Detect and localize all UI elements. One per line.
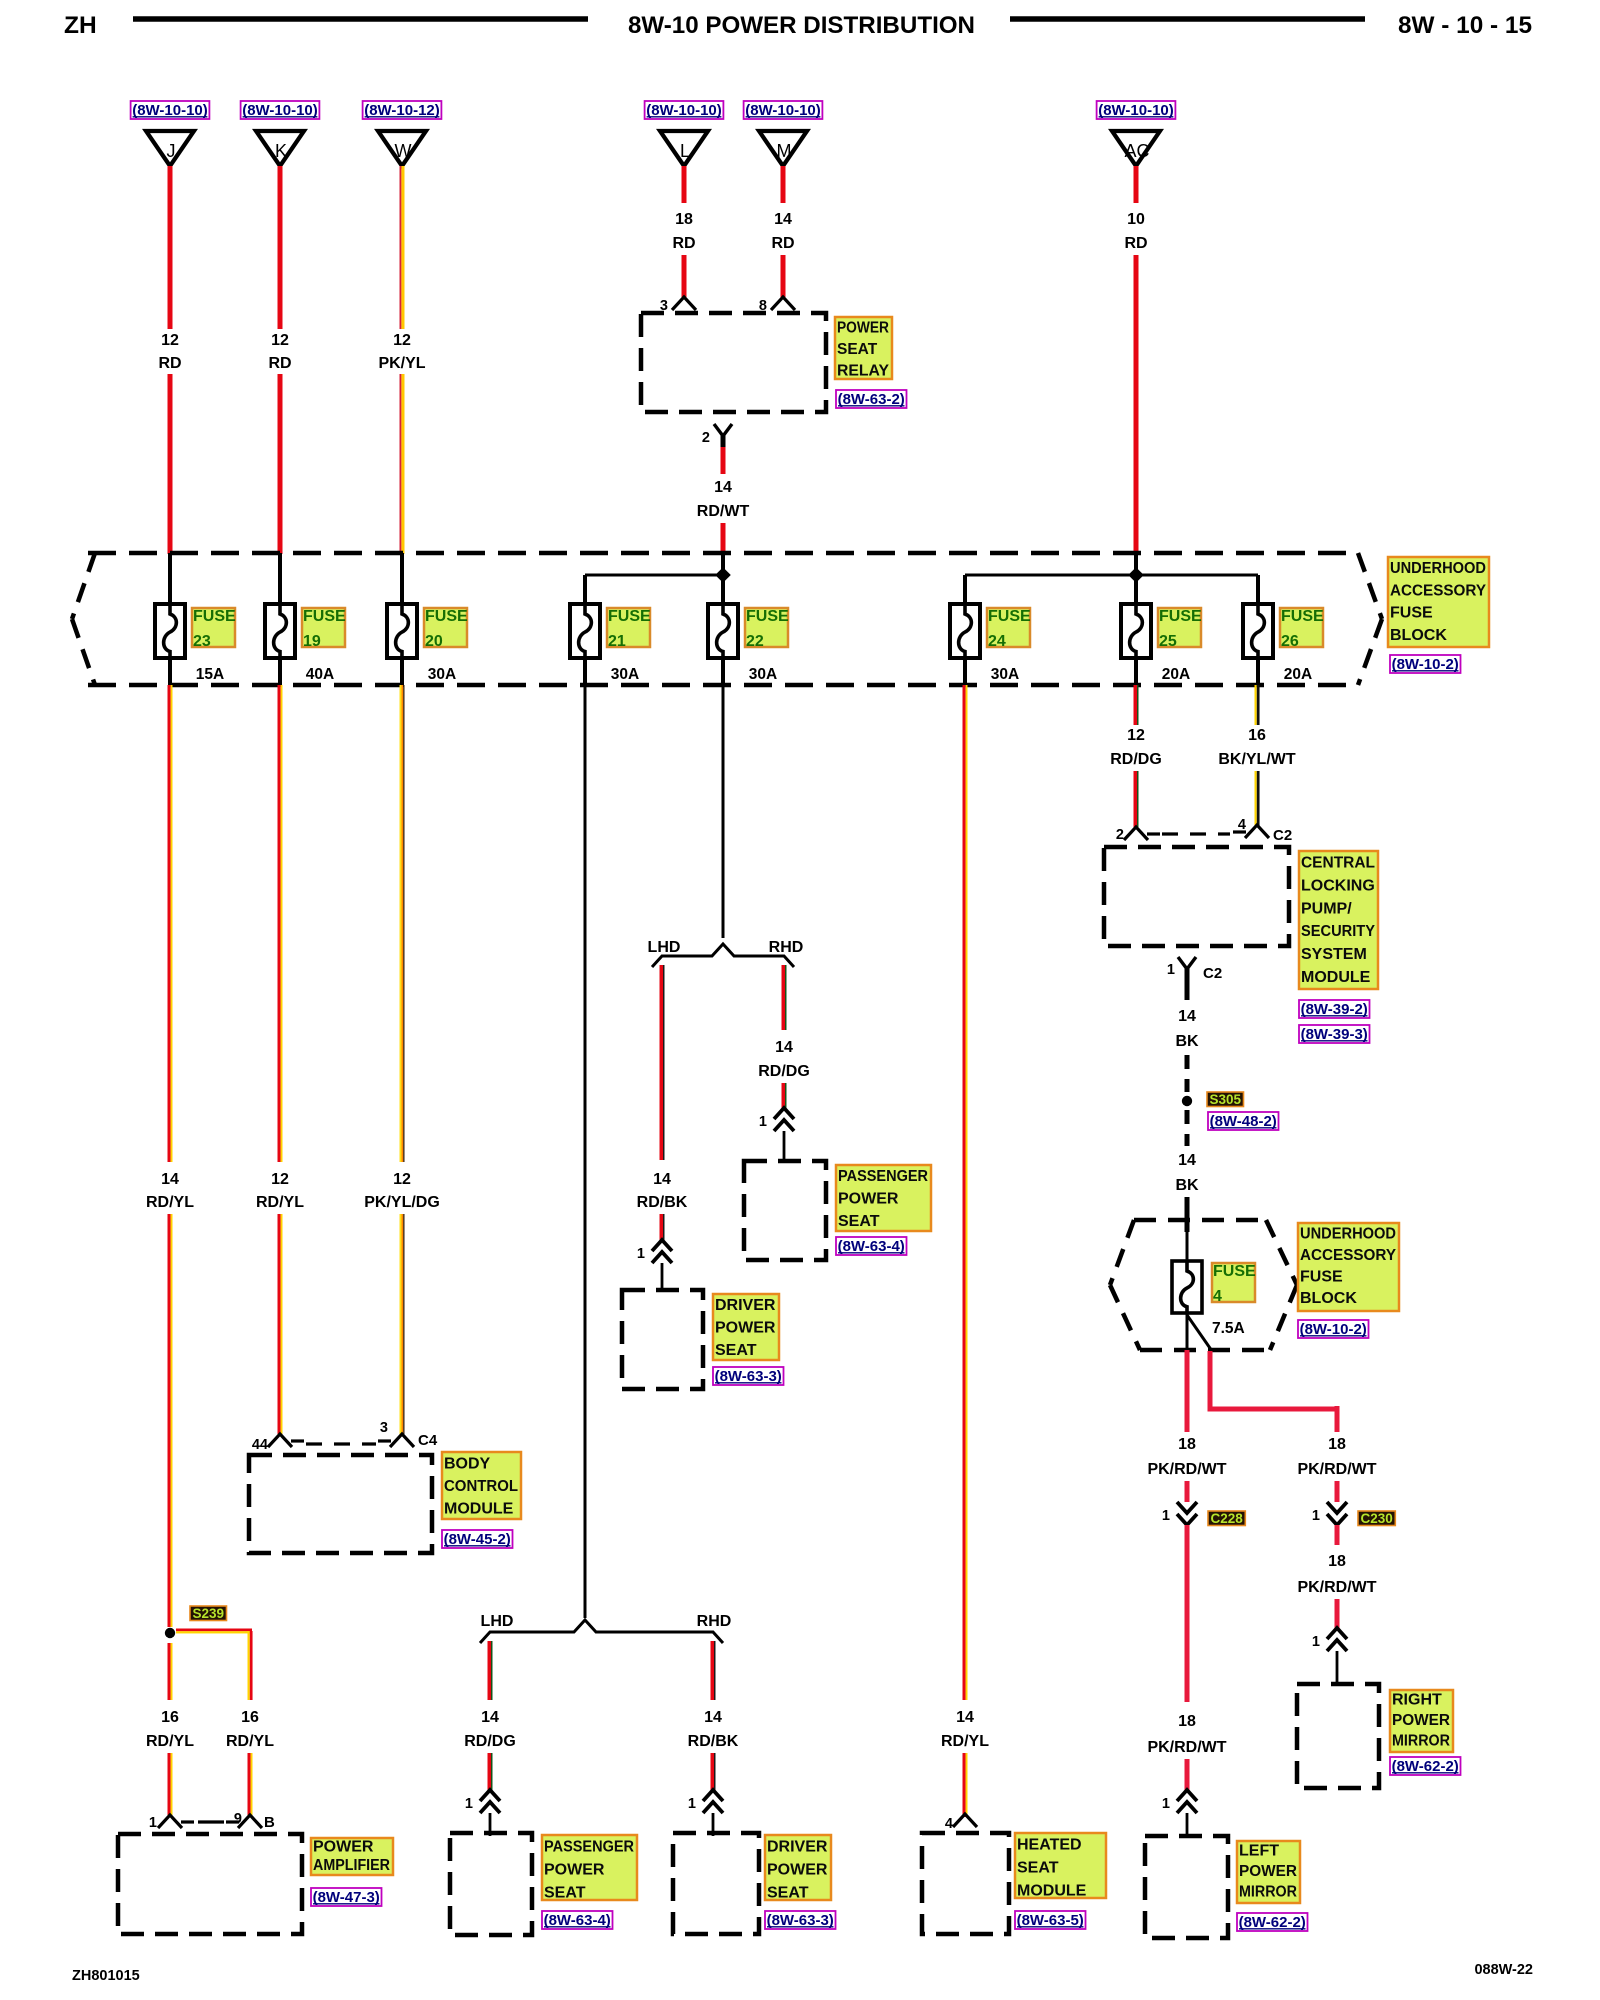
svg-text:PK/YL/DG: PK/YL/DG [364, 1194, 440, 1211]
link (8W-10-10) above connector M [744, 101, 823, 119]
svg-text:22: 22 [746, 633, 764, 650]
svg-text:DRIVER: DRIVER [715, 1297, 776, 1314]
svg-text:SEAT: SEAT [1017, 1860, 1059, 1877]
svg-text:30A: 30A [749, 666, 777, 683]
connector triangle AC [1112, 131, 1160, 166]
fuse 26 lower stub [1256, 658, 1260, 687]
pin 2 of power seat relay [714, 424, 732, 449]
svg-text:RD: RD [771, 235, 794, 252]
svg-text:SECURITY: SECURITY [1301, 923, 1375, 940]
pin 4 of heated seat module [953, 1814, 977, 1827]
fuse 23 lower stub [168, 658, 172, 687]
svg-text:FUSE: FUSE [746, 608, 789, 625]
svg-text:20: 20 [425, 633, 443, 650]
in-line connector 1 (passenger power seat) [480, 1790, 500, 1813]
link (8W-63-5) heated seat module [1015, 1911, 1086, 1929]
wire 18 PK/RD/WT (right branch down) [1208, 1351, 1213, 1409]
fuse 4 feed stub [1186, 1232, 1189, 1261]
svg-text:POWER: POWER [715, 1320, 776, 1337]
dashed wire 14 BK to splice S305 [1185, 1055, 1190, 1092]
label FUSE 25 [1158, 608, 1202, 650]
in-line connector 1 (driver power seat upper) [652, 1240, 672, 1263]
wire 16 BK/YL/WT to C2 pin 4 [1255, 771, 1260, 827]
svg-text:POWER: POWER [1239, 1863, 1297, 1880]
svg-text:4: 4 [1213, 1288, 1222, 1305]
svg-text:RHD: RHD [769, 939, 804, 956]
svg-text:CENTRAL: CENTRAL [1301, 855, 1375, 872]
svg-text:14: 14 [774, 211, 792, 228]
svg-text:9: 9 [234, 1811, 242, 1827]
svg-text:1: 1 [1312, 1508, 1320, 1524]
wire 18 PK/RD/WT below C228 [1185, 1525, 1190, 1702]
wire to C230 [1335, 1481, 1340, 1502]
svg-text:BK: BK [1175, 1033, 1199, 1050]
pin 1 of central locking module (C2 bottom) [1178, 957, 1196, 982]
svg-text:18: 18 [1328, 1553, 1346, 1570]
fuse 25 symbol [1121, 603, 1151, 659]
svg-text:CONTROL: CONTROL [444, 1478, 518, 1495]
svg-text:LHD: LHD [648, 939, 681, 956]
label UNDERHOOD ACCESSORY FUSE BLOCK (right of band) [1388, 557, 1489, 647]
label POWER AMPLIFIER [311, 1838, 393, 1875]
svg-text:SYSTEM: SYSTEM [1301, 946, 1367, 963]
fuse 21 lower stub [583, 658, 587, 687]
svg-text:44: 44 [252, 1437, 268, 1453]
svg-text:RD/YL: RD/YL [146, 1194, 194, 1211]
label FUSE 26 [1280, 608, 1324, 650]
label FUSE 20 [424, 608, 468, 650]
underhood accessory fuse block: bottom dashed boundary [88, 683, 1358, 688]
svg-text:MIRROR: MIRROR [1239, 1884, 1297, 1901]
wire from fuse 22 down to LHD/RHD split [722, 685, 725, 938]
label FUSE 22 [745, 608, 789, 650]
wire 12 RD from J to fuse block [168, 374, 173, 554]
connector triangle J [146, 131, 194, 166]
wire to right mirror connector [1335, 1599, 1340, 1628]
wire 12 RD/YL below fuse 19 [278, 685, 283, 1162]
svg-text:C2: C2 [1273, 827, 1292, 844]
label PASSENGER POWER SEAT (upper) [836, 1165, 931, 1231]
wire 12 RD from connector J [168, 166, 173, 329]
wire 10 RD from connector AC [1134, 166, 1139, 203]
svg-text:POWER: POWER [838, 1191, 899, 1208]
svg-text:C2: C2 [1203, 965, 1222, 982]
in-line connector 1 (left power mirror) [1177, 1790, 1197, 1813]
dashed wire 14 BK below S305 [1185, 1110, 1190, 1146]
svg-text:RD/YL: RD/YL [146, 1733, 194, 1750]
pin 8 of power seat relay [771, 297, 795, 310]
feed line from AC wire to fuses 24/25/26 [1134, 553, 1138, 604]
link (8W-63-3) driver power seat lower [765, 1911, 836, 1929]
svg-text:1: 1 [465, 1796, 473, 1812]
svg-text:BK/YL/WT: BK/YL/WT [1218, 751, 1296, 768]
wire 14 RD/BK (LHD upper) below split [660, 965, 665, 1160]
svg-text:19: 19 [303, 633, 321, 650]
label FUSE 23 [192, 608, 236, 650]
svg-text:PK/RD/WT: PK/RD/WT [1297, 1579, 1376, 1596]
svg-text:MODULE: MODULE [1301, 969, 1371, 986]
svg-text:RD/DG: RD/DG [464, 1733, 516, 1750]
svg-text:ZH: ZH [64, 12, 97, 39]
wire 18 PK/RD/WT below C230 [1335, 1525, 1340, 1545]
svg-text:2: 2 [702, 430, 710, 446]
svg-text:MODULE: MODULE [444, 1501, 514, 1518]
pin dashes between C2 pins [1162, 832, 1230, 835]
svg-text:LEFT: LEFT [1239, 1843, 1279, 1860]
header rule right [1010, 16, 1365, 22]
wire 14 RD/YL below fuse 23 [168, 685, 173, 1162]
wire 14 RD from connector M [781, 166, 786, 203]
left power mirror (dashed box) [1145, 1836, 1228, 1938]
svg-text:30A: 30A [611, 666, 639, 683]
link (8W-10-10) above connector AC [1097, 101, 1176, 119]
junction dot at fuse 22 feed [715, 567, 731, 583]
link (8W-62-2) right power mirror [1390, 1757, 1461, 1775]
svg-text:4: 4 [945, 1816, 953, 1832]
feed stub into fuse 19 [278, 553, 282, 604]
svg-text:MODULE: MODULE [1017, 1883, 1087, 1900]
feed stub into fuse 23 [168, 553, 172, 604]
svg-text:K: K [275, 141, 287, 161]
svg-text:16: 16 [241, 1709, 259, 1726]
svg-text:BLOCK: BLOCK [1300, 1290, 1357, 1307]
power amplifier (dashed box) [118, 1834, 302, 1934]
link (8W-10-2) for fuse block [1390, 655, 1461, 673]
pin 44 of body control module [268, 1434, 304, 1447]
svg-text:UNDERHOOD: UNDERHOOD [1390, 560, 1486, 577]
svg-text:21: 21 [608, 633, 626, 650]
fuse 4 lower stub [1186, 1313, 1189, 1350]
svg-text:PK/RD/WT: PK/RD/WT [1147, 1739, 1226, 1756]
svg-text:RD/YL: RD/YL [226, 1733, 274, 1750]
svg-text:BLOCK: BLOCK [1390, 627, 1447, 644]
svg-text:ZH801015: ZH801015 [72, 1968, 140, 1984]
wire 14 RD/WT from relay pin 2 [721, 447, 726, 474]
link (8W-47-3) power amplifier [311, 1888, 382, 1906]
fuse 19 symbol [265, 603, 295, 659]
fuse 22 lower stub [721, 658, 725, 687]
svg-text:RD/YL: RD/YL [941, 1733, 989, 1750]
wire 18 PK/RD/WT (right branch horizontal) [1208, 1407, 1340, 1412]
fuse block right dashed edge [1358, 553, 1382, 619]
svg-text:20A: 20A [1284, 666, 1312, 683]
pin dashes between BCM pins [306, 1442, 376, 1445]
header rule left [133, 16, 588, 22]
svg-text:26: 26 [1281, 633, 1299, 650]
svg-text:12: 12 [1127, 727, 1145, 744]
svg-text:RD/YL: RD/YL [256, 1194, 304, 1211]
in-line connector C228 [1177, 1502, 1197, 1525]
label FUSE 19 [302, 608, 346, 650]
svg-text:FUSE: FUSE [988, 608, 1031, 625]
wire 12 RD from connector K [278, 166, 283, 329]
svg-text:18: 18 [1328, 1436, 1346, 1453]
wire 14 RD/YL to heated seat pin 4 [963, 1753, 968, 1817]
link (8W-62-2) left power mirror [1237, 1913, 1308, 1931]
svg-text:RD: RD [268, 355, 291, 372]
in-line connector C230 [1327, 1502, 1347, 1525]
svg-text:ACCESSORY: ACCESSORY [1300, 1247, 1396, 1264]
svg-text:14: 14 [956, 1709, 974, 1726]
link (8W-39-3) [1299, 1025, 1370, 1043]
svg-text:POWER: POWER [837, 320, 889, 337]
pin 3 of power seat relay [672, 297, 696, 310]
fuse 26 symbol [1243, 603, 1273, 659]
in-line connector 1 (driver power seat) [703, 1790, 723, 1813]
svg-text:POWER: POWER [313, 1838, 374, 1855]
link (8W-10-2) for second fuse block [1298, 1320, 1369, 1338]
link (8W-63-4) passenger power seat upper [836, 1237, 907, 1255]
wire 16 RD/YL to amplifier pin 9 [248, 1753, 253, 1815]
svg-text:18: 18 [675, 211, 693, 228]
svg-text:18: 18 [1178, 1436, 1196, 1453]
svg-text:RIGHT: RIGHT [1392, 1692, 1442, 1709]
svg-text:14: 14 [714, 479, 732, 496]
wire 14 RD/BK to connector [660, 1214, 665, 1240]
wire to left mirror connector [1185, 1759, 1190, 1790]
label FUSE 4 [1212, 1263, 1256, 1305]
svg-text:DRIVER: DRIVER [767, 1839, 828, 1856]
svg-text:FUSE: FUSE [608, 608, 651, 625]
svg-text:25: 25 [1159, 633, 1177, 650]
label HEATED SEAT MODULE [1015, 1833, 1106, 1900]
svg-text:LOCKING: LOCKING [1301, 877, 1375, 894]
label BODY CONTROL MODULE [442, 1452, 521, 1519]
wire 16 RD/YL to amplifier pin 1 [168, 1753, 173, 1815]
svg-text:1: 1 [1162, 1508, 1170, 1524]
wire 12 PK/YL/DG below fuse 20 [400, 685, 405, 1162]
wire 10 RD from AC to fuse block [1134, 255, 1139, 554]
svg-text:3: 3 [380, 1420, 388, 1436]
wire 14 RD/YL below fuse 24 [963, 685, 968, 1700]
connector triangle K [256, 131, 304, 166]
pin dashes between amplifier pins [198, 1820, 226, 1823]
driver power seat lower (dashed box) [673, 1833, 759, 1934]
label FUSE 24 [987, 608, 1031, 650]
svg-text:FUSE: FUSE [1300, 1269, 1343, 1286]
svg-text:RD/DG: RD/DG [1110, 751, 1162, 768]
svg-text:PUMP/: PUMP/ [1301, 900, 1352, 917]
svg-text:S305: S305 [1210, 1092, 1242, 1107]
label DRIVER POWER SEAT (upper) [713, 1294, 779, 1360]
fuse 19 lower stub [278, 658, 282, 687]
svg-text:C228: C228 [1210, 1511, 1243, 1526]
wire 14 RD/DG to connector [782, 1083, 787, 1108]
svg-text:BK: BK [1175, 1177, 1199, 1194]
svg-text:1: 1 [759, 1114, 767, 1130]
label CENTRAL LOCKING PUMP/SECURITY SYSTEM MODULE [1299, 851, 1378, 989]
svg-text:16: 16 [161, 1709, 179, 1726]
wire 14 RD/YL to splice S239 [168, 1214, 173, 1627]
svg-text:8W - 10 - 15: 8W - 10 - 15 [1398, 12, 1532, 39]
svg-text:RELAY: RELAY [837, 363, 890, 380]
wire 12 PK/YL/DG to BCM pin 3 [400, 1214, 405, 1434]
svg-text:AC: AC [1124, 141, 1149, 161]
svg-text:MIRROR: MIRROR [1392, 1733, 1450, 1750]
wire 14 BK from C2 pin 1 [1185, 975, 1190, 1000]
splice S305 [1182, 1096, 1192, 1106]
link (8W-10-10) above connector K [241, 101, 320, 119]
svg-text:18: 18 [1178, 1713, 1196, 1730]
underhood accessory fuse block: top dashed boundary [88, 551, 1358, 556]
svg-text:J: J [167, 141, 176, 161]
wire 14 RD/DG (LHD) below split [488, 1641, 493, 1700]
passenger power seat lower (dashed box) [450, 1833, 532, 1935]
svg-text:1: 1 [149, 1815, 157, 1831]
svg-text:12: 12 [271, 1171, 289, 1188]
central locking pump / security system module (dashed box) [1104, 847, 1289, 946]
svg-text:1: 1 [637, 1246, 645, 1262]
svg-text:12: 12 [271, 332, 289, 349]
svg-text:14: 14 [481, 1709, 499, 1726]
svg-text:POWER: POWER [767, 1862, 828, 1879]
svg-text:PASSENGER: PASSENGER [838, 1168, 928, 1185]
branch wire RD/YL from S239 to the right [176, 1629, 252, 1634]
svg-text:W: W [395, 141, 412, 161]
splice S239 [165, 1628, 175, 1638]
wire 14 RD from M to relay pin 8 [781, 255, 786, 297]
svg-text:FUSE: FUSE [1213, 1263, 1256, 1280]
svg-text:12: 12 [393, 1171, 411, 1188]
LHD/RHD split (upper) [652, 944, 794, 967]
svg-text:FUSE: FUSE [193, 608, 236, 625]
heated seat module (dashed box) [922, 1833, 1009, 1934]
label RIGHT POWER MIRROR [1390, 1690, 1453, 1752]
svg-text:24: 24 [988, 633, 1006, 650]
body control module (dashed box) [249, 1455, 432, 1553]
link (8W-10-10) above connector J [131, 101, 210, 119]
svg-text:15A: 15A [196, 666, 224, 683]
fuse block left dashed edge [72, 553, 95, 619]
link (8W-39-2) [1299, 1000, 1370, 1018]
feed line from pin2 wire to fuses 21/22 [721, 553, 725, 604]
svg-text:C4: C4 [418, 1432, 438, 1449]
wire 16 RD/YL below S239 [168, 1643, 173, 1700]
pin 4 of central locking module (C2) [1233, 825, 1269, 838]
svg-text:1: 1 [1312, 1634, 1320, 1650]
svg-text:2: 2 [1116, 827, 1124, 843]
svg-text:L: L [680, 141, 690, 161]
svg-text:12: 12 [161, 332, 179, 349]
svg-text:16: 16 [1248, 727, 1266, 744]
fuse 24 symbol [950, 603, 980, 659]
svg-text:14: 14 [1178, 1008, 1196, 1025]
svg-text:40A: 40A [306, 666, 334, 683]
wire 12 PK/YL from W to fuse block [400, 374, 405, 554]
svg-text:RD: RD [672, 235, 695, 252]
driver power seat upper (dashed box) [622, 1290, 703, 1389]
label LEFT POWER MIRROR [1237, 1841, 1300, 1903]
svg-text:POWER: POWER [1392, 1712, 1450, 1729]
wire 18 RD from connector L [682, 166, 687, 203]
link (8W-63-3) driver power seat upper [713, 1367, 784, 1385]
wire 12 PK/YL from connector W [400, 166, 405, 329]
wire 18 PK/RD/WT (left branch) [1185, 1350, 1190, 1432]
feed stub into fuse 20 [400, 553, 404, 604]
svg-text:AMPLIFIER: AMPLIFIER [313, 1857, 390, 1874]
wire from fuse 21 down to LHD/RHD split [584, 685, 587, 1618]
fuse 22 symbol [708, 603, 738, 659]
pin 3 of body control module [378, 1434, 414, 1447]
fuse 4 symbol [1172, 1260, 1202, 1314]
link (8W-63-2) for power seat relay [836, 390, 907, 408]
svg-text:088W-22: 088W-22 [1474, 1962, 1533, 1978]
svg-text:UNDERHOOD: UNDERHOOD [1300, 1226, 1396, 1243]
svg-text:FUSE: FUSE [1281, 608, 1324, 625]
svg-text:S239: S239 [193, 1606, 225, 1621]
wire 12 RD/YL to BCM pin 44 [278, 1214, 283, 1434]
svg-text:FUSE: FUSE [425, 608, 468, 625]
svg-text:12: 12 [393, 332, 411, 349]
svg-text:4: 4 [1238, 817, 1246, 833]
link (8W-10-12) above connector W [363, 101, 442, 119]
svg-text:FUSE: FUSE [303, 608, 346, 625]
LHD/RHD split (lower) [480, 1620, 723, 1643]
link (8W-10-10) above connector L [645, 101, 724, 119]
in-line connector 1 (passenger power seat upper) [774, 1108, 794, 1131]
svg-text:14: 14 [1178, 1152, 1196, 1169]
svg-text:PASSENGER: PASSENGER [544, 1839, 634, 1856]
svg-text:7.5A: 7.5A [1212, 1320, 1245, 1337]
wire 14 BK into underhood fuse block [1185, 1197, 1190, 1232]
wire to C228 [1185, 1481, 1190, 1502]
svg-text:FUSE: FUSE [1390, 605, 1433, 622]
svg-text:14: 14 [161, 1171, 179, 1188]
svg-text:C230: C230 [1360, 1511, 1392, 1526]
svg-text:30A: 30A [428, 666, 456, 683]
fuse 20 symbol [387, 603, 417, 659]
fuse 25 lower stub [1134, 658, 1138, 687]
fuse 24 lower stub [963, 658, 967, 687]
svg-text:PK/RD/WT: PK/RD/WT [1297, 1461, 1376, 1478]
svg-text:SEAT: SEAT [715, 1342, 757, 1359]
fuse 20 lower stub [400, 658, 404, 687]
fuse 23 symbol [155, 603, 185, 659]
wire 16 BK/YL/WT below fuse 26 [1255, 685, 1260, 725]
wire 12 RD from K to fuse block [278, 374, 283, 554]
wire 18 RD from L to relay pin 3 [682, 255, 687, 297]
svg-text:RD: RD [1124, 235, 1147, 252]
label POWER SEAT RELAY [835, 317, 892, 380]
right power mirror (dashed box) [1297, 1684, 1379, 1788]
wire 14 RD/WT to fuse block [721, 523, 726, 554]
svg-text:B: B [264, 1814, 275, 1831]
connector triangle M [759, 131, 807, 166]
svg-text:M: M [777, 141, 792, 161]
svg-text:LHD: LHD [481, 1613, 514, 1630]
svg-text:RD/BK: RD/BK [637, 1194, 688, 1211]
svg-text:14: 14 [775, 1039, 793, 1056]
svg-text:20A: 20A [1162, 666, 1190, 683]
svg-text:1: 1 [688, 1796, 696, 1812]
pin 1 of power amplifier [158, 1815, 194, 1828]
wire 14 RD/BK to connector [711, 1753, 716, 1790]
link (8W-48-2) for S305 [1208, 1112, 1279, 1130]
label UNDERHOOD ACCESSORY FUSE BLOCK (second) [1298, 1223, 1399, 1311]
svg-text:8W-10 POWER DISTRIBUTION: 8W-10 POWER DISTRIBUTION [628, 12, 975, 39]
link (8W-63-4) passenger power seat lower [542, 1911, 613, 1929]
in-line connector 1 (right power mirror) [1327, 1628, 1347, 1651]
svg-text:1: 1 [1167, 962, 1175, 978]
svg-text:HEATED: HEATED [1017, 1837, 1082, 1854]
pin 2 of central locking module (C2) [1124, 827, 1160, 840]
fuse 21 symbol [570, 603, 600, 659]
svg-text:1: 1 [1162, 1796, 1170, 1812]
label PASSENGER POWER SEAT (lower) [542, 1835, 637, 1902]
svg-text:RD: RD [158, 355, 181, 372]
underhood accessory fuse block 2 (dashed outline) [1134, 1218, 1266, 1223]
wire 18 PK/RD/WT (right branch to C230) [1335, 1406, 1340, 1432]
